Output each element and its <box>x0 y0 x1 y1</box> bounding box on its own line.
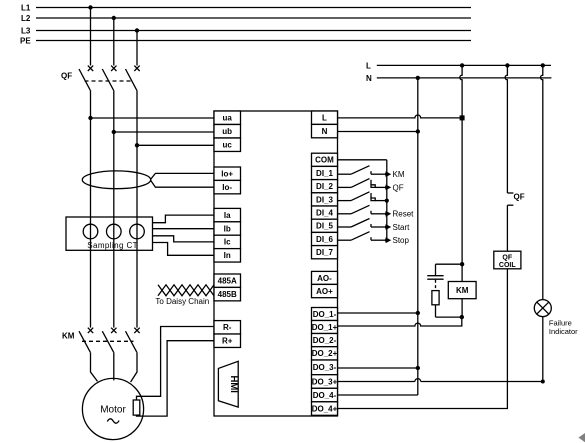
wire uc <box>137 144 214 146</box>
node ua tap <box>88 116 92 120</box>
svg-text:Motor: Motor <box>100 404 126 415</box>
svg-text:DO_1+: DO_1+ <box>312 323 338 332</box>
wire L drop to snubber (x462) <box>460 65 462 264</box>
svg-text:Stop: Stop <box>393 236 410 245</box>
wire In <box>153 243 215 256</box>
terminal uc <box>214 138 241 151</box>
svg-text:L: L <box>322 114 327 123</box>
svg-text:DI_4: DI_4 <box>316 209 333 218</box>
thermistor PTC on motor <box>133 400 140 415</box>
switch S1 on DI_1 <box>338 166 387 175</box>
svg-text:DO_1-: DO_1- <box>313 310 337 319</box>
svg-text:DI_7: DI_7 <box>316 248 333 257</box>
wire L1 to QF pole A <box>90 8 92 66</box>
svg-text:DO_2+: DO_2+ <box>312 349 338 358</box>
svg-text:COIL: COIL <box>499 262 516 269</box>
svg-text:Ia: Ia <box>224 211 231 220</box>
wire Ia <box>153 215 215 223</box>
terminal DO_4+ <box>312 402 338 416</box>
node DI_3 junction <box>385 199 389 203</box>
wire QF coil to DO_4+ <box>338 269 508 409</box>
svg-text:QF: QF <box>502 254 512 261</box>
node uc tap <box>135 143 139 147</box>
svg-text:L: L <box>366 61 371 70</box>
node DI_5 arrow to Start <box>385 223 410 232</box>
node L3 tap <box>135 28 139 32</box>
svg-text:DO_3+: DO_3+ <box>312 377 338 386</box>
wire L2 to QF pole B <box>113 18 115 66</box>
node snubber bottom <box>460 315 464 319</box>
svg-text:Ic: Ic <box>224 238 231 247</box>
wire L drop to QF aux contact <box>505 65 507 193</box>
wire Ic <box>153 236 215 242</box>
wire COM to DI common rail <box>338 159 387 161</box>
wire ub <box>114 131 214 133</box>
net L3 <box>21 26 471 35</box>
terminal R+ <box>214 334 241 347</box>
svg-text:Failure: Failure <box>549 318 572 327</box>
svg-text:DI_5: DI_5 <box>316 222 333 231</box>
node L1 tap <box>88 5 92 9</box>
svg-text:QF: QF <box>514 193 525 202</box>
svg-text:DI_3: DI_3 <box>316 195 333 204</box>
svg-text:N: N <box>366 74 372 83</box>
svg-text:In: In <box>224 251 231 260</box>
svg-text:DI_1: DI_1 <box>316 169 333 178</box>
DI common rail <box>386 160 388 241</box>
switch S5 on DI_5 <box>338 219 387 228</box>
lamp failure indicator <box>534 300 578 337</box>
svg-text:N: N <box>322 127 328 136</box>
terminal AO+ <box>312 284 338 297</box>
wire lamp to DO_3+ <box>338 317 543 382</box>
wire R- to thermistor <box>137 327 215 401</box>
wire DO_1- to N drop <box>338 312 418 314</box>
node DI_4 arrow to Reset <box>385 210 414 219</box>
node N-418 <box>416 76 420 80</box>
wire R+ to thermistor <box>137 341 215 416</box>
node ub tap <box>112 130 116 134</box>
svg-text:R-: R- <box>223 323 232 332</box>
net L1 <box>21 3 471 12</box>
svg-text:485A: 485A <box>218 277 237 286</box>
terminal AO- <box>312 271 338 284</box>
net L (control) <box>366 61 551 70</box>
terminal ub <box>214 125 241 138</box>
node DI_2 arrow to QF <box>385 183 404 192</box>
switch S4 on DI_4 <box>338 205 387 214</box>
svg-text:DO_2-: DO_2- <box>313 336 337 345</box>
svg-text:HMI: HMI <box>228 375 239 392</box>
wire phase B KM to motor <box>113 352 115 380</box>
cursor artifact <box>579 433 585 442</box>
node DI_6 arrow to Stop <box>385 236 410 245</box>
snubber bottom wire <box>436 316 462 318</box>
terminal DO_4- <box>312 388 338 402</box>
wire phase C KM to motor <box>131 352 137 382</box>
svg-text:QF: QF <box>393 183 404 192</box>
svg-text:DO_4+: DO_4+ <box>312 404 338 413</box>
circuit breaker QF (3-pole) <box>61 66 140 91</box>
svg-text:PE: PE <box>20 36 31 45</box>
svg-text:uc: uc <box>223 141 233 150</box>
node L wire corner <box>460 115 465 120</box>
terminal Ic <box>214 235 241 248</box>
svg-text:Io-: Io- <box>222 183 232 192</box>
wire QF contact to QF coil <box>506 205 508 251</box>
wire phase A QF to KM <box>90 90 92 327</box>
protection relay U1 body <box>214 111 338 416</box>
wire KM coil vertical <box>461 264 463 317</box>
node L-543 <box>541 63 545 67</box>
terminal DO_3+ <box>312 375 338 389</box>
svg-text:DO_3-: DO_3- <box>313 363 337 372</box>
wire terminal N to N drop <box>338 131 418 133</box>
hop DO_3+ over N drop <box>415 379 421 382</box>
terminal Ib <box>214 222 241 235</box>
wire Io- <box>151 180 214 187</box>
svg-text:AO+: AO+ <box>316 287 333 296</box>
terminal In <box>214 249 241 262</box>
wire phase B QF to KM <box>113 90 115 327</box>
terminal DI_7 <box>312 246 338 259</box>
node L-507 <box>505 63 509 67</box>
wire Ib <box>153 228 215 230</box>
svg-text:QF: QF <box>61 72 72 81</box>
svg-text:To Daisy Chain: To Daisy Chain <box>155 297 209 306</box>
zero-sequence CT ring <box>82 171 150 189</box>
wire L3 to QF pole C <box>136 31 138 66</box>
node L-462 <box>460 63 464 67</box>
node DO_3- junction <box>416 366 420 370</box>
svg-text:KM: KM <box>393 170 405 179</box>
switch S3 on DI_3 <box>338 192 387 201</box>
terminal R- <box>214 321 241 334</box>
svg-text:Ib: Ib <box>224 224 231 233</box>
terminal Ia <box>214 208 241 221</box>
auxiliary contact QF <box>507 193 524 206</box>
svg-text:ua: ua <box>223 114 233 123</box>
wire phase A KM to motor <box>91 352 98 381</box>
wire phase C QF to KM <box>136 90 138 327</box>
switch S6 on DI_6 <box>338 232 387 241</box>
svg-text:KM: KM <box>62 331 75 340</box>
terminal DO_3- <box>312 360 338 375</box>
wire L drop to failure lamp <box>541 65 543 299</box>
terminal DI_4 <box>312 206 338 219</box>
terminal Io- <box>214 180 241 193</box>
snubber top wire <box>436 263 463 265</box>
terminal 485A <box>214 274 241 287</box>
wire N drop to DO_4- <box>417 78 419 395</box>
terminal DI_1 <box>312 166 338 179</box>
terminal DO_1- <box>312 308 338 321</box>
svg-text:DI_2: DI_2 <box>316 182 333 191</box>
terminal DI_3 <box>312 193 338 206</box>
twisted pair RS-485 to daisy chain <box>155 285 214 306</box>
svg-text:DO_4-: DO_4- <box>313 391 337 400</box>
terminal DI_5 <box>312 219 338 232</box>
switch S2 on DI_2 <box>338 179 387 188</box>
svg-text:L3: L3 <box>21 26 31 35</box>
node N terminal junction <box>416 129 420 133</box>
node lamp corner <box>541 380 545 384</box>
terminal DI_6 <box>312 232 338 245</box>
node snubber top <box>460 262 464 266</box>
node DO_1- junction <box>416 311 420 315</box>
wire DO_1+ to KM coil <box>338 317 462 326</box>
motor M <box>82 378 143 439</box>
relay coil KM <box>448 282 476 299</box>
wire DO_4- to N drop <box>338 394 418 396</box>
net L2 <box>21 14 471 23</box>
svg-text:L2: L2 <box>21 14 31 23</box>
node L2 tap <box>112 16 116 20</box>
svg-text:KM: KM <box>456 286 469 295</box>
connector HMI <box>218 361 239 407</box>
svg-text:DI_6: DI_6 <box>316 235 333 244</box>
svg-text:ub: ub <box>222 127 232 136</box>
svg-text:AO-: AO- <box>317 274 332 283</box>
svg-text:COM: COM <box>315 156 334 165</box>
terminal DO_1+ <box>312 321 338 334</box>
trip coil QF COIL <box>494 251 521 269</box>
net PE <box>20 36 471 45</box>
svg-text:485B: 485B <box>218 290 237 299</box>
node DI_1 arrow to KM <box>385 170 405 179</box>
svg-text:Sampling CT: Sampling CT <box>87 241 138 250</box>
wire terminal L to net L <box>338 115 463 118</box>
terminal DO_2- <box>312 334 338 347</box>
terminal 485B <box>214 287 241 300</box>
contactor KM (3-pole) <box>62 328 140 353</box>
capacitor C1 <box>427 264 443 290</box>
terminal N <box>312 124 338 137</box>
terminal DI_2 <box>312 180 338 193</box>
svg-text:L1: L1 <box>21 3 31 12</box>
svg-text:Io+: Io+ <box>221 170 233 179</box>
resistor R1 <box>432 291 439 318</box>
net N (control) <box>366 74 551 83</box>
terminal COM <box>312 153 338 166</box>
terminal Io+ <box>214 167 241 180</box>
wire Io+ <box>151 173 214 179</box>
svg-text:Reset: Reset <box>393 210 415 219</box>
wire DO_3- to N drop <box>338 367 418 369</box>
terminal DO_2+ <box>312 347 338 360</box>
svg-text:R+: R+ <box>222 337 233 346</box>
svg-text:Start: Start <box>393 223 411 232</box>
terminal L <box>312 111 338 124</box>
svg-text:Indicator: Indicator <box>549 327 578 336</box>
wire ua <box>91 117 215 119</box>
terminal ua <box>214 111 241 124</box>
current transformer assembly: Sampling CT <box>66 217 153 250</box>
